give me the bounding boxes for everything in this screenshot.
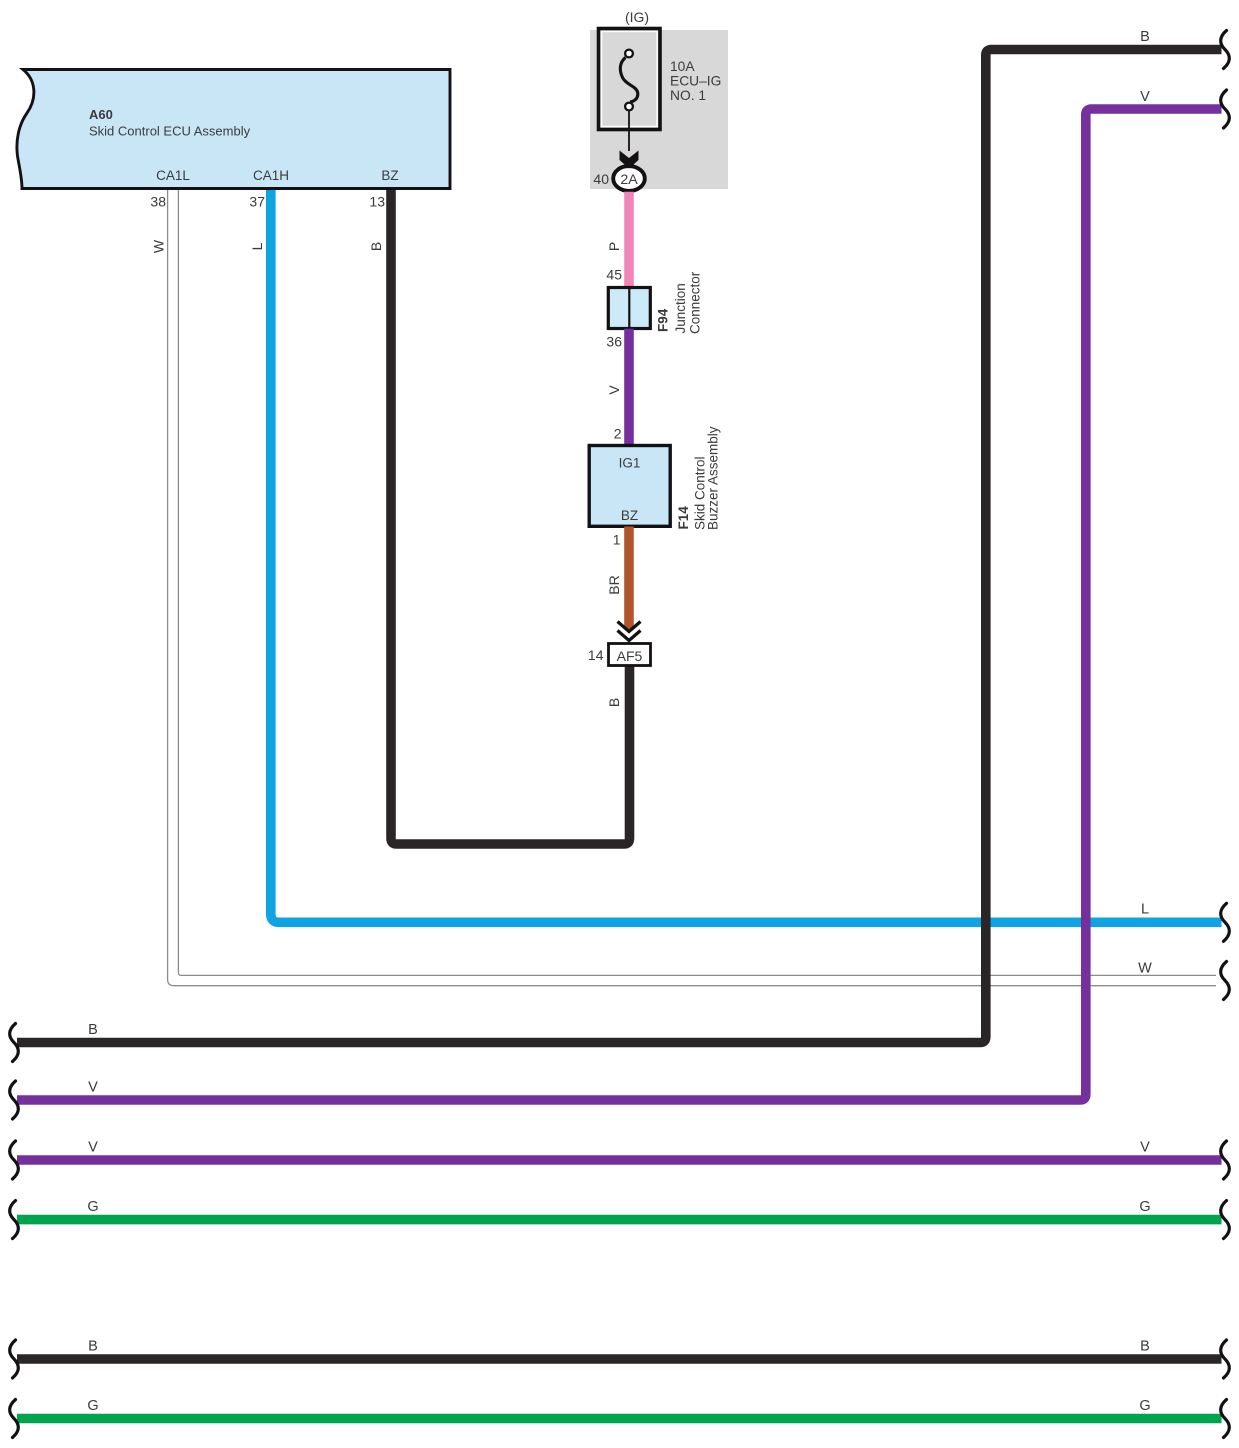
squiggle V left row1 (10, 1081, 19, 1119)
svg-text:36: 36 (606, 334, 622, 350)
svg-text:W: W (151, 239, 167, 253)
squiggle G left row4 (10, 1400, 19, 1438)
squiggle L (1221, 903, 1230, 941)
fuse panel gray background (590, 30, 728, 189)
svg-text:Skid Control ECU Assembly: Skid Control ECU Assembly (89, 124, 251, 139)
svg-text:37: 37 (249, 194, 265, 210)
squiggle G row (1221, 1201, 1230, 1239)
svg-text:38: 38 (150, 194, 166, 210)
svg-text:CA1L: CA1L (156, 168, 190, 183)
svg-text:2: 2 (614, 426, 622, 442)
squiggle G left (10, 1201, 19, 1239)
wire V right side: top edge to bottom-left (violet) (17, 109, 1222, 1100)
squiggle B row3 (1221, 1340, 1230, 1378)
svg-text:AF5: AF5 (617, 648, 643, 664)
wire B full-width row 2 (17, 1354, 1222, 1364)
svg-text:BR: BR (606, 575, 622, 594)
svg-text:B: B (88, 1338, 98, 1354)
svg-text:BZ: BZ (381, 168, 398, 183)
svg-text:L: L (249, 242, 265, 250)
wire P (pink) from 2A to F94 (624, 192, 634, 287)
wire V (violet) from F94 to F14 (624, 329, 634, 446)
fuse element S-curve (620, 58, 638, 102)
svg-text:ECU–IG: ECU–IG (670, 74, 721, 89)
squiggle B left row1 (10, 1024, 19, 1062)
F94 center divider (628, 289, 630, 327)
svg-text:1: 1 (613, 532, 621, 548)
squiggle V left row2 (10, 1141, 19, 1179)
svg-text:B: B (1140, 1338, 1150, 1354)
svg-text:B: B (606, 698, 622, 707)
break squiggles right edge (1221, 31, 1230, 1438)
svg-text:B: B (88, 1022, 98, 1038)
squiggle B top (1221, 31, 1230, 69)
wire G full-width row (17, 1215, 1222, 1225)
svg-text:F94: F94 (656, 308, 671, 332)
svg-text:Connector: Connector (688, 271, 703, 334)
connector AF5 (609, 644, 651, 666)
wire B BZ pin 13 to AF5 (black) (391, 190, 630, 844)
wire V full-width row (17, 1155, 1222, 1165)
svg-text:Buzzer Assembly: Buzzer Assembly (706, 426, 721, 530)
svg-text:P: P (606, 242, 622, 251)
junction connector F94 (608, 288, 650, 329)
svg-text:B: B (368, 242, 384, 251)
svg-text:Junction: Junction (673, 283, 688, 333)
splice double chevron (618, 622, 641, 641)
svg-text:W: W (1138, 961, 1152, 977)
connector F14 Skid Control Buzzer Assembly (589, 446, 670, 527)
svg-text:A60: A60 (89, 107, 113, 122)
svg-text:14: 14 (588, 647, 604, 663)
squiggle W (1221, 962, 1230, 1000)
svg-text:L: L (1141, 902, 1149, 918)
svg-text:V: V (606, 385, 622, 395)
svg-text:V: V (1140, 89, 1150, 105)
connector A60 Skid Control ECU Assembly box (17, 70, 450, 189)
svg-text:13: 13 (369, 194, 385, 210)
svg-text:B: B (1140, 29, 1150, 45)
arrow into node 2A (620, 151, 639, 169)
squiggle G row4 (1221, 1400, 1230, 1438)
fuse terminal circle bottom (625, 103, 633, 111)
squiggle V top (1221, 90, 1230, 128)
svg-text:V: V (88, 1139, 98, 1155)
svg-text:G: G (87, 1199, 98, 1215)
svg-text:F14: F14 (676, 506, 691, 530)
svg-text:45: 45 (606, 267, 622, 283)
svg-text:G: G (87, 1398, 98, 1414)
squiggle V row2 (1221, 1141, 1230, 1179)
svg-text:V: V (1140, 1139, 1150, 1155)
svg-text:(IG): (IG) (625, 9, 649, 25)
wire B right side: top edge to bottom-left (black) (17, 50, 1222, 1043)
svg-text:NO. 1: NO. 1 (670, 88, 706, 103)
svg-text:CA1H: CA1H (253, 168, 289, 183)
fuse terminal circle top (625, 50, 633, 58)
svg-text:IG1: IG1 (619, 456, 641, 471)
wire BR (brown) from F14 to AF5 (624, 527, 634, 630)
break squiggles left edge (10, 1024, 19, 1438)
svg-text:V: V (88, 1079, 98, 1095)
wire L CA1H pin 37 (blue) (271, 190, 1222, 922)
svg-text:G: G (1139, 1199, 1150, 1215)
fuse box (599, 29, 661, 130)
svg-text:BZ: BZ (621, 508, 638, 523)
node 2A oval (613, 166, 645, 191)
squiggle B left row3 (10, 1340, 19, 1378)
svg-text:2A: 2A (620, 172, 638, 188)
svg-text:40: 40 (593, 171, 609, 187)
svg-text:10A: 10A (670, 59, 695, 74)
wire W CA1L pin 38 (white wire, outlined pair) (168, 190, 1216, 986)
fuse lead line (628, 111, 630, 151)
wire G full-width row 2 (17, 1414, 1222, 1424)
svg-text:G: G (1139, 1398, 1150, 1414)
